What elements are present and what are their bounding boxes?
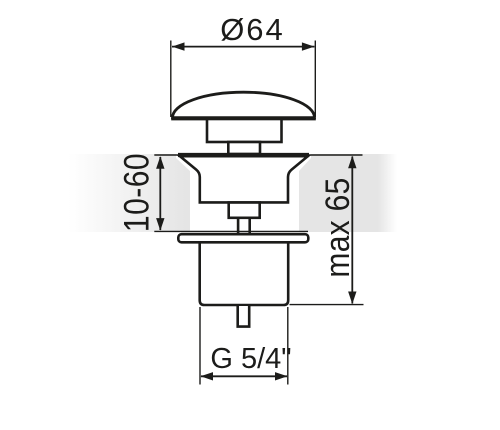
max65 dim line xyxy=(351,157,353,304)
lower stem xyxy=(238,218,250,234)
10-60 arrow up xyxy=(156,156,164,169)
max65 ext line top xyxy=(307,154,363,156)
10-60 dim line xyxy=(159,157,161,230)
G54 arrow right xyxy=(275,372,288,380)
max65 ext line bottom xyxy=(290,304,364,306)
white halo around valve through counter xyxy=(176,153,311,232)
G54 ext line right xyxy=(287,307,289,385)
cap bottom line xyxy=(171,118,316,121)
dia64 arrow left xyxy=(172,42,185,50)
dia64 arrow right xyxy=(302,42,315,50)
valve body xyxy=(200,243,289,305)
counter band solid xyxy=(185,154,378,232)
G54 arrow left xyxy=(201,372,214,380)
counter band left gradient xyxy=(68,154,185,232)
locking flange xyxy=(178,234,308,242)
max65 arrow up xyxy=(348,156,356,169)
G54 ext line left xyxy=(199,307,201,385)
dia64 ext line right xyxy=(314,41,316,118)
dia64 dim line xyxy=(172,46,314,48)
max65 arrow down xyxy=(348,292,356,305)
svg-text:Ø64: Ø64 xyxy=(220,12,285,47)
tail pipe xyxy=(238,306,250,327)
counter band right fade xyxy=(378,154,397,232)
10-60 arrow down xyxy=(156,218,164,231)
dia64 ext line left xyxy=(170,41,172,118)
upper stem xyxy=(228,142,260,154)
cap neck xyxy=(207,119,282,142)
10-60 ext line top xyxy=(154,154,179,156)
svg-text:10-60: 10-60 xyxy=(116,153,156,232)
svg-text:max 65: max 65 xyxy=(318,177,356,277)
mid box xyxy=(229,203,260,218)
funnel body xyxy=(180,156,308,202)
10-60 ext line bottom xyxy=(154,230,308,232)
G54 dim line xyxy=(201,375,287,377)
dimension work xyxy=(154,41,363,385)
svg-text:G 5/4": G 5/4" xyxy=(210,343,291,375)
top flange xyxy=(178,153,309,157)
cap dome xyxy=(173,92,315,117)
